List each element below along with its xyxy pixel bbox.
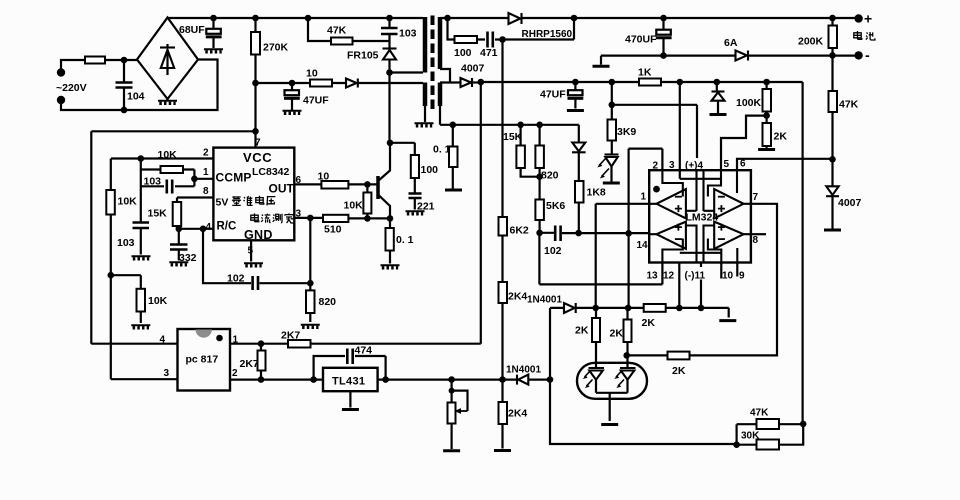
svg-text:47UF: 47UF: [540, 89, 566, 101]
svg-text:30K: 30K: [741, 431, 760, 442]
svg-text:1: 1: [641, 192, 647, 203]
svg-text:5: 5: [724, 159, 730, 170]
svg-text:FR105: FR105: [347, 50, 379, 62]
svg-text:8: 8: [753, 235, 759, 246]
svg-text:pc 817: pc 817: [186, 354, 219, 366]
svg-text:LC8342: LC8342: [252, 166, 290, 178]
svg-text:7: 7: [255, 138, 261, 149]
svg-text:102: 102: [227, 273, 245, 285]
svg-text:510: 510: [324, 224, 342, 236]
svg-text:2K: 2K: [672, 365, 686, 377]
svg-text:LM324: LM324: [686, 212, 719, 224]
svg-text:1N4001: 1N4001: [506, 365, 541, 376]
svg-text:15K: 15K: [503, 131, 523, 143]
svg-text:10K: 10K: [148, 295, 168, 307]
svg-text:4: 4: [160, 335, 166, 346]
svg-text:2K4: 2K4: [508, 408, 527, 420]
svg-text:200K: 200K: [798, 36, 824, 48]
svg-text:CCMP: CCMP: [216, 171, 252, 185]
svg-text:3: 3: [669, 160, 675, 171]
svg-text:10K: 10K: [118, 196, 138, 208]
svg-text:221: 221: [417, 201, 435, 213]
svg-text:12: 12: [663, 271, 675, 282]
svg-text:~220V: ~220V: [56, 82, 87, 94]
svg-text:OUT: OUT: [269, 182, 295, 196]
svg-text:+: +: [864, 11, 872, 27]
svg-text:10: 10: [306, 68, 318, 80]
svg-text:-: -: [865, 47, 870, 63]
svg-text:5K6: 5K6: [546, 200, 565, 212]
svg-text:1K8: 1K8: [587, 187, 606, 199]
svg-text:820: 820: [541, 170, 559, 182]
svg-text:0. 1: 0. 1: [396, 234, 414, 246]
svg-text:14: 14: [637, 240, 649, 251]
svg-text:2: 2: [653, 161, 659, 172]
svg-text:10: 10: [318, 171, 330, 183]
svg-text:10K: 10K: [158, 149, 178, 161]
svg-text:1N4001: 1N4001: [527, 295, 562, 306]
svg-text:(+)4: (+)4: [685, 161, 704, 172]
svg-text:103: 103: [117, 237, 135, 249]
svg-text:2K: 2K: [774, 131, 788, 143]
svg-text:68UF: 68UF: [179, 24, 205, 36]
svg-text:47UF: 47UF: [303, 95, 329, 107]
svg-text:GND: GND: [244, 228, 273, 242]
svg-text:2: 2: [232, 368, 238, 379]
svg-text:103: 103: [144, 176, 162, 188]
svg-text:104: 104: [127, 91, 145, 103]
svg-text:270K: 270K: [263, 42, 289, 54]
svg-text:474: 474: [355, 345, 373, 357]
svg-text:3: 3: [296, 209, 302, 220]
svg-text:0. 1: 0. 1: [433, 144, 451, 156]
svg-text:15K: 15K: [148, 208, 168, 220]
svg-text:4: 4: [206, 222, 212, 233]
svg-text:13: 13: [647, 271, 659, 282]
svg-text:8: 8: [203, 186, 209, 197]
svg-text:1K: 1K: [638, 67, 652, 79]
svg-text:R/C: R/C: [217, 221, 237, 233]
svg-text:4007: 4007: [838, 197, 862, 209]
svg-text:2K7: 2K7: [281, 330, 300, 342]
svg-text:2K4: 2K4: [508, 291, 527, 303]
svg-text:9: 9: [739, 271, 745, 282]
svg-text:102: 102: [544, 245, 562, 257]
svg-text:RHRP1560: RHRP1560: [522, 29, 573, 40]
svg-text:47K: 47K: [839, 99, 859, 111]
svg-text:2K: 2K: [610, 328, 624, 340]
svg-text:2K7: 2K7: [240, 358, 259, 370]
svg-text:2: 2: [203, 148, 209, 159]
svg-text:100: 100: [421, 164, 439, 176]
svg-text:7: 7: [753, 192, 759, 203]
svg-text:471: 471: [480, 47, 498, 59]
svg-text:5V: 5V: [216, 197, 229, 209]
svg-text:10K: 10K: [344, 200, 364, 212]
svg-text:6: 6: [740, 159, 746, 170]
svg-text:332: 332: [179, 252, 197, 264]
svg-text:47K: 47K: [750, 408, 769, 419]
svg-text:1: 1: [203, 167, 209, 178]
svg-text:3: 3: [164, 368, 170, 379]
svg-text:TL431: TL431: [332, 376, 365, 388]
svg-text:820: 820: [319, 296, 337, 308]
svg-text:2K: 2K: [642, 317, 656, 329]
svg-text:470UF: 470UF: [625, 34, 657, 46]
svg-text:4007: 4007: [461, 63, 485, 75]
svg-text:6A: 6A: [724, 37, 738, 49]
svg-text:6: 6: [296, 175, 302, 186]
svg-text:100: 100: [454, 47, 472, 59]
svg-text:VCC: VCC: [243, 150, 272, 165]
svg-text:2K: 2K: [575, 325, 589, 337]
svg-text:6K2: 6K2: [510, 225, 529, 237]
svg-text:47K: 47K: [327, 25, 347, 37]
svg-text:(-)11: (-)11: [685, 271, 706, 282]
svg-text:10: 10: [722, 271, 734, 282]
svg-text:1: 1: [233, 335, 239, 346]
svg-text:100K: 100K: [736, 97, 762, 109]
svg-text:3K9: 3K9: [617, 126, 636, 138]
svg-text:103: 103: [399, 28, 417, 40]
svg-text:5: 5: [248, 246, 254, 257]
